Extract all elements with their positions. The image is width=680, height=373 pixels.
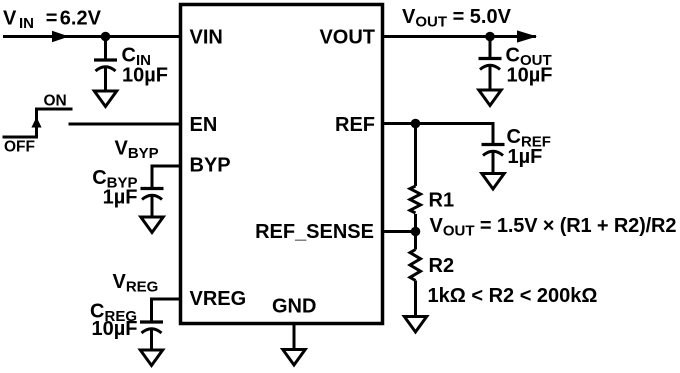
wire EN step rising edge — [35, 109, 38, 137]
svg-text:1µF: 1µF — [103, 187, 138, 209]
ground (CREG) — [140, 350, 162, 366]
wire R2 top lead — [414, 232, 417, 250]
wire REF pin to CREF — [383, 124, 494, 145]
node REF_SENSE junction — [411, 227, 421, 237]
wire VOUT output — [383, 35, 537, 38]
wire CIN top lead — [104, 37, 107, 61]
ground (CBYP) — [141, 217, 163, 233]
svg-text:VIN: VIN — [190, 27, 223, 49]
svg-text:10µF: 10µF — [507, 65, 553, 87]
svg-text:1µF: 1µF — [508, 146, 543, 168]
wire GND pin — [293, 324, 296, 350]
svg-text:BYP: BYP — [190, 155, 231, 177]
wire EN step high level — [35, 108, 73, 111]
resistor R1 — [410, 186, 421, 213]
wire REF_SENSE pin — [383, 230, 416, 233]
node VIN junction — [101, 32, 111, 42]
arrow EN rising edge — [31, 117, 41, 128]
ground (CREF) — [482, 174, 504, 190]
svg-text:OFF: OFF — [4, 139, 35, 156]
svg-text:10µF: 10µF — [122, 65, 168, 87]
wire REF node to R1 — [414, 124, 417, 187]
ground (COUT) — [479, 90, 501, 106]
wire CREG bottom lead — [150, 330, 153, 350]
node VOUT junction — [485, 32, 495, 42]
wire EN step low level — [3, 136, 39, 139]
svg-text:10µF: 10µF — [92, 318, 138, 340]
svg-text:1kΩ < R2 < 200kΩ: 1kΩ < R2 < 200kΩ — [428, 285, 598, 307]
svg-text:REF: REF — [335, 114, 375, 136]
wire COUT bottom lead — [489, 67, 492, 91]
wire CIN bottom lead — [104, 68, 107, 90]
svg-text:REF_SENSE: REF_SENSE — [255, 221, 374, 243]
ground (CIN) — [94, 91, 116, 107]
wire R2 bottom lead — [414, 281, 417, 317]
svg-text:VREG: VREG — [190, 288, 247, 310]
op-amp U1 (regulator IC body) — [181, 5, 383, 324]
svg-text:R2: R2 — [429, 255, 455, 277]
wire CBYP bottom lead — [151, 197, 154, 218]
svg-text:R1: R1 — [429, 190, 455, 212]
capacitor C_IN symbol — [94, 60, 117, 71]
wire VIN input — [3, 35, 181, 38]
arrow VOUT output — [517, 30, 537, 42]
svg-text:=: = — [46, 8, 58, 30]
capacitor C_OUT symbol — [479, 59, 502, 70]
resistor R2 — [410, 250, 421, 281]
svg-text:IN: IN — [19, 15, 34, 32]
svg-text:ON: ON — [44, 93, 67, 110]
arrow VIN current direction — [52, 31, 69, 43]
svg-text:VOUT: VOUT — [319, 27, 375, 49]
ground (R2) — [404, 317, 426, 333]
svg-text:GND: GND — [272, 296, 316, 318]
wire VREG pin — [152, 299, 181, 322]
wire R1 to REF_SENSE node — [414, 214, 417, 232]
ground (GND pin) — [283, 350, 305, 366]
svg-text:6.2V: 6.2V — [60, 8, 102, 30]
capacitor C_REF symbol — [482, 145, 505, 156]
capacitor C_REG symbol — [140, 322, 163, 333]
wire CREF bottom lead — [492, 153, 495, 174]
svg-text:EN: EN — [190, 114, 218, 136]
node REF junction — [411, 119, 421, 129]
wire BYP pin — [152, 166, 181, 189]
wire COUT top lead — [489, 37, 492, 59]
capacitor C_BYP symbol — [141, 189, 164, 200]
wire EN to pin — [69, 123, 181, 126]
svg-text:V: V — [3, 8, 17, 30]
